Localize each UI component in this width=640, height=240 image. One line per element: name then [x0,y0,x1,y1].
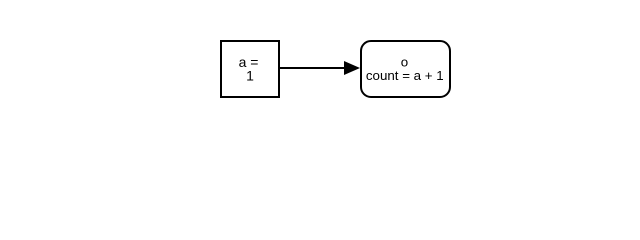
svg-text:1: 1 [246,68,254,84]
svg-text:count = a + 1: count = a + 1 [366,68,444,83]
